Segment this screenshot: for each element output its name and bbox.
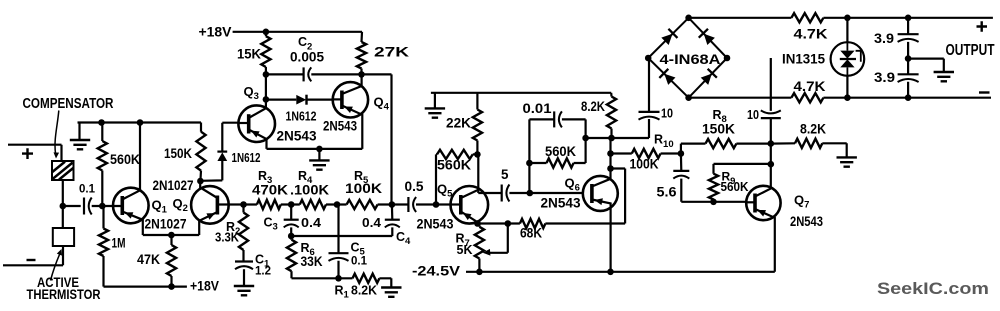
capacitor 10 (left): [639, 111, 660, 113]
resistor R1 8.2K: [353, 274, 380, 283]
resistor 8.2K (output): [771, 143, 847, 157]
svg-text:1N612: 1N612: [286, 108, 317, 123]
svg-text:2N543: 2N543: [323, 119, 357, 134]
svg-text:0.1: 0.1: [351, 255, 368, 267]
svg-text:560K: 560K: [721, 180, 749, 194]
leader arrow to compensator: [55, 111, 59, 155]
svg-text:560K: 560K: [545, 144, 576, 159]
+ terminal: [22, 148, 33, 159]
DC- rail: [689, 97, 991, 99]
svg-text:560K: 560K: [437, 158, 471, 173]
feedback 560K around Q5: [436, 154, 477, 204]
capacitor 5: [501, 185, 503, 202]
transistor Q3 2N543: [238, 105, 275, 142]
active thermistor box: [53, 228, 74, 246]
svg-text:8.2K: 8.2K: [351, 282, 378, 297]
ground (R1): [381, 288, 401, 297]
svg-text:2N543: 2N543: [541, 195, 581, 210]
svg-text:4-IN68A: 4-IN68A: [660, 52, 721, 67]
resistor R5 100K: [347, 200, 378, 209]
DC+ rail: [689, 17, 993, 19]
emitter rail Q1 Q2: [143, 234, 199, 236]
svg-text:+18V: +18V: [199, 24, 233, 39]
resistor R4 100K: [300, 200, 326, 209]
svg-text:COMPENSATOR: COMPENSATOR: [23, 96, 115, 112]
svg-text:100K: 100K: [345, 181, 382, 196]
diode 1N612 (vertical): [200, 123, 222, 181]
svg-text:150K: 150K: [702, 121, 735, 136]
svg-text:0.1: 0.1: [79, 184, 96, 196]
Q3 base wire to diode: [222, 122, 238, 124]
svg-text:2N543: 2N543: [790, 214, 823, 229]
resistor 560K (input bias): [101, 123, 103, 207]
+18V bottom rail: [104, 286, 187, 288]
resistor R8 150K: [681, 143, 771, 145]
svg-text:15K: 15K: [237, 46, 261, 61]
svg-text:2N543: 2N543: [417, 217, 454, 232]
svg-text:Q1: Q1: [152, 198, 168, 216]
zener 1N1315: [846, 18, 848, 98]
capacitor C3 0.4: [290, 205, 292, 220]
resistor R6 33K: [287, 240, 296, 272]
capacitor 0.5: [407, 197, 409, 212]
node junction: [60, 203, 67, 210]
svg-text:THERMISTOR: THERMISTOR: [27, 287, 101, 302]
Q5 collector wire to coupling cap 5: [478, 154, 530, 193]
svg-text:8.2K: 8.2K: [581, 99, 605, 114]
filter caps 3.9: [907, 18, 909, 98]
bottom rail R6/C5/R1: [292, 278, 392, 287]
capacitor C1 1.2: [235, 260, 253, 262]
resistor 15K: [265, 32, 267, 75]
resistor 1M: [102, 206, 104, 287]
svg-text:.100K: .100K: [290, 182, 329, 197]
capacitor C4 0.4: [391, 205, 394, 220]
svg-text:33K: 33K: [301, 254, 323, 269]
wire compensator to thermistor: [62, 180, 64, 228]
svg-text:150K: 150K: [164, 146, 192, 161]
svg-text:5.6: 5.6: [657, 184, 677, 199]
svg-text:Q7: Q7: [794, 192, 809, 210]
capacitor C5 0.1: [337, 205, 339, 279]
68K feedback to Q6 collector (U path): [611, 169, 626, 224]
wire + terminal lead: [8, 145, 62, 161]
svg-text:27K: 27K: [374, 45, 409, 60]
ground (output 8.2K): [837, 157, 857, 166]
svg-text:1M: 1M: [112, 236, 126, 251]
resistor R9 560K: [714, 164, 771, 202]
svg-text:Q6: Q6: [565, 175, 580, 193]
svg-text:5: 5: [501, 167, 509, 182]
svg-text:0.4: 0.4: [301, 215, 322, 230]
resistor 8.2K (Q6 collector load): [610, 93, 612, 138]
emitter wire Q5 / 68K: [477, 222, 625, 224]
svg-text:1.2: 1.2: [255, 266, 271, 278]
leader arrow to active thermistor: [51, 252, 61, 281]
svg-text:R10: R10: [654, 133, 674, 150]
C3/C4 bottom link: [291, 227, 392, 236]
svg-text:2N543: 2N543: [277, 129, 317, 144]
Q3 collector node: [265, 74, 267, 99]
svg-text:IN1315: IN1315: [782, 52, 825, 67]
svg-text:470K: 470K: [252, 182, 288, 197]
svg-text:5K: 5K: [457, 243, 473, 257]
svg-text:68K: 68K: [520, 225, 542, 240]
svg-text:100K: 100K: [630, 156, 659, 171]
resistor R10 100K: [611, 152, 681, 154]
svg-text:4.7K: 4.7K: [794, 79, 826, 94]
svg-text:-24.5V: -24.5V: [412, 263, 460, 278]
svg-text:47K: 47K: [137, 252, 160, 267]
- terminal wire: [3, 246, 63, 265]
transistor Q2 2N1027: [191, 186, 229, 224]
svg-text:R1: R1: [335, 283, 350, 300]
svg-text:2N1027: 2N1027: [153, 178, 194, 193]
resistor R3 470K: [257, 200, 281, 209]
svg-text:1N612: 1N612: [232, 150, 261, 165]
R7 wiper: [490, 224, 508, 253]
svg-text:OUTPUT: OUTPUT: [946, 42, 996, 59]
output ground: [908, 59, 944, 72]
svg-text:10: 10: [747, 107, 759, 122]
svg-text:Q3: Q3: [244, 84, 259, 102]
resistor R2 3.3K: [242, 205, 244, 261]
capacitor 0.1: [83, 198, 85, 215]
svg-text:SeekIC.com: SeekIC.com: [877, 279, 989, 298]
svg-text:0.5: 0.5: [405, 179, 425, 194]
top bias rail: [78, 121, 202, 123]
svg-text:Q4: Q4: [374, 94, 390, 112]
svg-text:3.9: 3.9: [874, 31, 894, 46]
transistor Q5 2N543: [451, 186, 489, 224]
feedback wire 27K node down to R5 node: [362, 74, 392, 204]
resistor 4.7K (bottom): [791, 93, 823, 102]
svg-text:8.2K: 8.2K: [800, 121, 826, 136]
emitter rail Q3 Q4 with ground: [267, 148, 363, 150]
svg-text:Q2: Q2: [173, 196, 188, 214]
svg-text:10: 10: [661, 106, 673, 121]
svg-text:0.4: 0.4: [362, 215, 382, 230]
Q6 base wire: [530, 192, 583, 194]
resistor 22K: [476, 93, 478, 155]
svg-text:3.9: 3.9: [874, 70, 895, 85]
main RC ladder wire: [245, 203, 451, 205]
diode 1N612 (horizontal): [266, 98, 333, 100]
capacitor 10 (right): [770, 58, 772, 164]
svg-text:2N1027: 2N1027: [145, 217, 187, 232]
svg-text:C3: C3: [264, 216, 278, 233]
svg-text:3.3K: 3.3K: [215, 230, 240, 245]
wire to coupling cap: [63, 205, 81, 207]
output -: [979, 91, 990, 93]
transistor Q6 2N543: [583, 176, 618, 211]
svg-text:Q5: Q5: [437, 181, 453, 199]
Q6 collector vertical / R10 node: [609, 138, 611, 179]
resistor 4.7K (top): [791, 13, 823, 22]
wire cap to Q1 base: [92, 205, 123, 207]
ground (C1): [234, 286, 254, 295]
output +: [977, 21, 988, 31]
svg-text:+18V: +18V: [190, 278, 219, 293]
svg-text:C4: C4: [396, 230, 411, 247]
svg-text:0.005: 0.005: [290, 49, 325, 64]
grounded rail above Q5: [431, 92, 611, 94]
resistor 47K: [170, 235, 172, 287]
ground (bias rail): [78, 123, 80, 141]
Q6 collector node wire: [586, 119, 649, 138]
capacitor C2 0.005: [266, 73, 362, 75]
capacitor 5.6: [681, 144, 746, 202]
potentiometer R7 5K: [478, 224, 480, 272]
transistor Q1 2N1027: [113, 188, 149, 224]
- terminal: [27, 259, 36, 261]
resistor 68K: [520, 219, 546, 228]
svg-text:0.01: 0.01: [523, 101, 553, 116]
transistor Q7 2N543: [746, 186, 780, 220]
bridge rectifier 4-IN68A: [648, 18, 727, 98]
svg-text:560K: 560K: [110, 152, 140, 167]
transistor Q4 2N543: [333, 82, 368, 117]
resistor 150K: [199, 123, 202, 182]
svg-text:22K: 22K: [446, 116, 471, 131]
resistor 27K: [360, 32, 363, 75]
compensator thermistor box: [52, 161, 74, 180]
svg-text:4.7K: 4.7K: [794, 26, 828, 41]
node Q2 base / R2: [240, 201, 247, 208]
parallel 0.01 / 560K: [529, 119, 585, 193]
